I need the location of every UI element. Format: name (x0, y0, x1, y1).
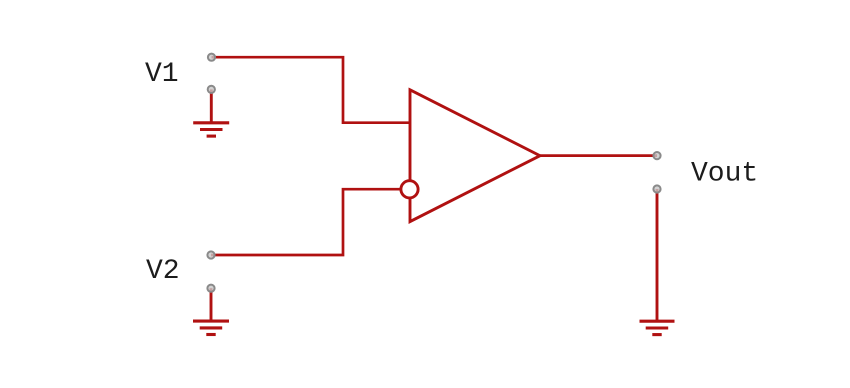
wire V2 negative terminal to ground (210, 288, 213, 321)
wire V1 negative terminal to ground (210, 89, 213, 122)
op-amp U1 triangle body (410, 90, 540, 222)
wire op-amp output to Vout node (540, 154, 657, 157)
node dot V2 positive terminal (207, 251, 214, 258)
svg-text:V2: V2 (146, 256, 180, 287)
node dot V1 positive terminal (208, 54, 215, 61)
wire V1 positive terminal to op-amp non-inverting input (212, 57, 412, 123)
wire Vout node to ground (656, 189, 659, 321)
node dot V1 negative terminal (208, 86, 215, 93)
svg-text:Vout: Vout (691, 159, 758, 190)
ground symbol under V1 (193, 123, 229, 136)
svg-text:V1: V1 (145, 59, 179, 90)
wire V2 positive terminal to op-amp inverting input bubble (211, 189, 401, 255)
node dot V2 negative terminal (207, 285, 214, 292)
op-amp inverting input bubble (401, 181, 418, 198)
node dot Vout ground terminal (653, 185, 660, 192)
ground symbol under Vout (640, 321, 675, 334)
ground symbol under V2 (193, 321, 229, 334)
node dot output Vout (653, 152, 660, 159)
